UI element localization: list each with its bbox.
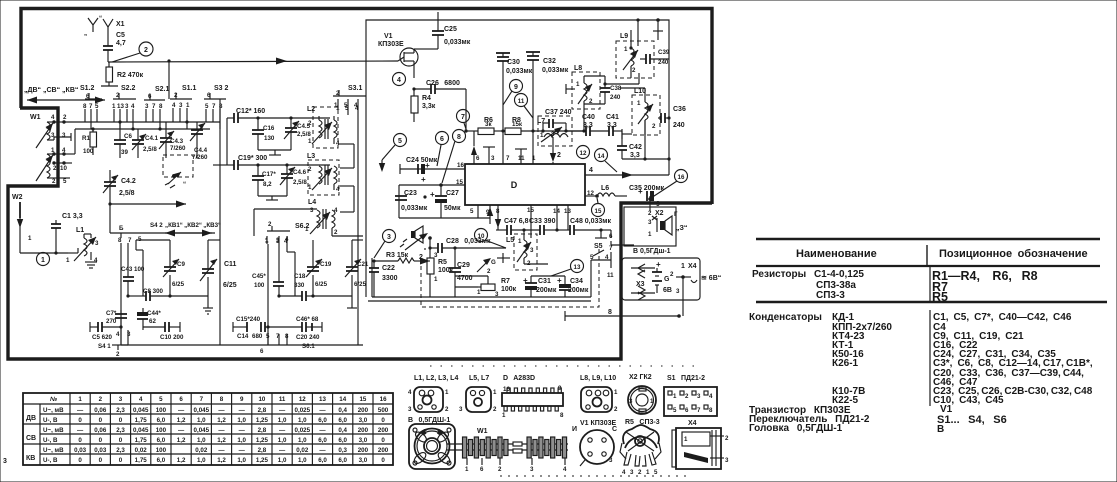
svg-text:4: 4 bbox=[355, 105, 359, 112]
svg-text:2: 2 bbox=[99, 396, 103, 403]
svg-text:4: 4 bbox=[709, 393, 713, 400]
svg-text:1: 1 bbox=[673, 393, 677, 400]
svg-text:1,0: 1,0 bbox=[197, 417, 206, 424]
capacitor C8 300 bbox=[126, 288, 170, 301]
svg-text:—: — bbox=[218, 427, 225, 434]
svg-text:7: 7 bbox=[506, 155, 510, 162]
pinout L8,L9,L10 bbox=[580, 375, 618, 413]
pinout D A283D bbox=[502, 375, 564, 419]
svg-text:4: 4 bbox=[94, 257, 98, 264]
svg-text:5: 5 bbox=[205, 103, 209, 110]
stub above L9 bbox=[653, 18, 663, 40]
IC bottom pins bbox=[470, 205, 571, 238]
svg-text:2: 2 bbox=[445, 406, 449, 413]
svg-text:6,0: 6,0 bbox=[338, 437, 347, 444]
svg-text:2: 2 bbox=[557, 152, 561, 159]
svg-text:C5 620: C5 620 bbox=[92, 334, 113, 341]
capacitor C5 620 bbox=[90, 322, 123, 341]
outer schematic border right/bottom bbox=[8, 108, 712, 359]
svg-text:Конденсаторы: Конденсаторы bbox=[749, 312, 822, 323]
svg-text:1: 1 bbox=[684, 436, 688, 443]
svg-text:≊ 6В“: ≊ 6В“ bbox=[701, 275, 721, 282]
svg-text:Резисторы С1-4-0,125: Резисторы С1-4-0,125 bbox=[752, 269, 864, 280]
capacitor C18 330 bbox=[279, 273, 313, 301]
svg-text:И: И bbox=[572, 426, 577, 433]
svg-text:„КВ1“ „КВ2“ „КВ3“: „КВ1“ „КВ2“ „КВ3“ bbox=[165, 222, 221, 229]
speaker B 0,5GDSh-1 bbox=[633, 211, 687, 255]
capacitor C47 6,8 bbox=[496, 218, 540, 235]
svg-text:S1... S4, S6: S1... S4, S6 bbox=[937, 414, 1007, 426]
svg-text:1,0: 1,0 bbox=[278, 417, 287, 424]
stub left of L10 bbox=[622, 129, 632, 139]
svg-text:„ДВ“ „СВ“ „КВ“: „ДВ“ „СВ“ „КВ“ bbox=[24, 87, 78, 94]
svg-text:1: 1 bbox=[648, 231, 652, 238]
svg-text:16: 16 bbox=[457, 162, 464, 169]
svg-text:3: 3 bbox=[648, 219, 652, 226]
svg-text:1: 1 bbox=[41, 257, 45, 264]
svg-text:U~, мВ: U~, мВ bbox=[43, 427, 64, 434]
svg-text:5: 5 bbox=[95, 103, 99, 110]
svg-text:0: 0 bbox=[99, 437, 103, 444]
svg-text:12: 12 bbox=[580, 150, 587, 157]
svg-text:3: 3 bbox=[697, 393, 701, 400]
svg-text:4,7: 4,7 bbox=[116, 40, 126, 47]
svg-text:3: 3 bbox=[725, 457, 729, 464]
svg-text:270: 270 bbox=[106, 318, 117, 325]
svg-text:10: 10 bbox=[258, 396, 265, 403]
pinout X4 bbox=[672, 420, 729, 469]
svg-text:2,3: 2,3 bbox=[116, 427, 125, 434]
svg-text:—: — bbox=[77, 407, 84, 414]
svg-text:C17*: C17* bbox=[262, 171, 276, 178]
svg-text:16: 16 bbox=[678, 174, 685, 181]
svg-text:1,25: 1,25 bbox=[256, 437, 269, 444]
svg-text:C41: C41 bbox=[606, 114, 619, 121]
paper speckle dots bbox=[430, 366, 700, 476]
svg-text:1: 1 bbox=[614, 389, 618, 396]
table header numbers bbox=[78, 396, 387, 403]
svg-text:2: 2 bbox=[144, 47, 148, 54]
svg-text:2: 2 bbox=[334, 229, 338, 236]
svg-text:C4.3: C4.3 bbox=[170, 138, 184, 145]
capacitor C17* 8,2 bbox=[252, 165, 276, 196]
svg-text:2: 2 bbox=[52, 178, 56, 185]
svg-text:3: 3 bbox=[145, 103, 149, 110]
svg-text:0,02: 0,02 bbox=[135, 447, 148, 454]
pinout W1 ferrite rod bbox=[447, 428, 568, 473]
node 2 circled bbox=[112, 42, 153, 62]
IF transformer L2 bbox=[307, 105, 359, 148]
IF transformer L3 bbox=[307, 153, 340, 195]
svg-text:D: D bbox=[511, 180, 518, 190]
svg-text:6,0: 6,0 bbox=[318, 457, 327, 464]
svg-text:3,0: 3,0 bbox=[359, 417, 368, 424]
svg-text:Х4: Х4 bbox=[688, 420, 697, 427]
svg-text:62: 62 bbox=[149, 318, 156, 325]
svg-text:C43: C43 bbox=[121, 266, 133, 273]
switch S3.1 bbox=[333, 85, 366, 115]
svg-text:1: 1 bbox=[502, 412, 506, 419]
svg-text:2,8: 2,8 bbox=[258, 427, 267, 434]
svg-text:16: 16 bbox=[380, 396, 387, 403]
svg-text:„: „ bbox=[84, 30, 87, 37]
svg-text:11: 11 bbox=[518, 98, 525, 105]
svg-text:СП3-3: СП3-3 bbox=[816, 290, 845, 301]
svg-text:15: 15 bbox=[359, 396, 366, 403]
svg-text:2,5/8: 2,5/8 bbox=[293, 179, 307, 186]
svg-text:0,03: 0,03 bbox=[74, 447, 87, 454]
svg-text:0,033мк: 0,033мк bbox=[444, 39, 471, 46]
svg-text:5: 5 bbox=[63, 178, 67, 185]
svg-text:6: 6 bbox=[609, 233, 613, 240]
inductor L6 bbox=[597, 185, 627, 196]
dashed gang box bbox=[163, 155, 193, 188]
svg-text:14: 14 bbox=[339, 396, 346, 403]
svg-text:1: 1 bbox=[434, 276, 438, 283]
pinout X2 GK2 bbox=[628, 374, 656, 414]
capacitor C40 3,3 bbox=[566, 114, 609, 136]
svg-text:C37 240: C37 240 bbox=[545, 109, 572, 116]
svg-text:200: 200 bbox=[358, 427, 369, 434]
svg-text:КВ: КВ bbox=[26, 455, 35, 462]
svg-text:1,2: 1,2 bbox=[177, 437, 186, 444]
svg-text:10: 10 bbox=[60, 165, 67, 172]
svg-text:3: 3 bbox=[530, 247, 534, 254]
svg-text:Г: Г bbox=[674, 211, 678, 218]
trimmer C4.5 2,5/8 bbox=[258, 118, 311, 155]
svg-text:2: 2 bbox=[268, 221, 272, 228]
capacitor C35 200mk bbox=[629, 185, 665, 211]
svg-text:3: 3 bbox=[459, 406, 463, 413]
svg-text:R3 15к: R3 15к bbox=[386, 252, 409, 259]
capacitor C26 6800 bbox=[414, 80, 466, 131]
svg-text:C5: C5 bbox=[116, 32, 125, 39]
svg-text:0: 0 bbox=[381, 417, 385, 424]
svg-text:D A283D: D A283D bbox=[503, 375, 535, 382]
svg-text:L1: L1 bbox=[76, 227, 84, 234]
svg-text:С1, С5, С7*, С40—С42, С46: С1, С5, С7*, С40—С42, С46 bbox=[933, 312, 1072, 323]
svg-text:6/25: 6/25 bbox=[315, 281, 328, 288]
svg-text:5: 5 bbox=[470, 208, 474, 215]
svg-text:3: 3 bbox=[276, 237, 280, 244]
svg-text:50мк: 50мк bbox=[444, 205, 461, 212]
svg-text:3: 3 bbox=[630, 469, 634, 476]
svg-text:2: 2 bbox=[725, 435, 729, 442]
capacitor C7* 270 bbox=[106, 310, 127, 330]
svg-text:6В: 6В bbox=[663, 287, 672, 294]
svg-text:S3 2: S3 2 bbox=[214, 85, 229, 92]
svg-text:100: 100 bbox=[156, 427, 167, 434]
svg-text:C21: C21 bbox=[357, 261, 369, 268]
electrolytic C31 200mk bbox=[523, 276, 557, 297]
switch S4.1 bbox=[98, 330, 128, 358]
svg-text:0,02: 0,02 bbox=[296, 447, 309, 454]
svg-text:7: 7 bbox=[212, 103, 216, 110]
svg-text:1,75: 1,75 bbox=[135, 437, 148, 444]
svg-text:C42: C42 bbox=[629, 144, 642, 151]
node 7 circled bbox=[457, 110, 470, 133]
svg-text:C12* 160: C12* 160 bbox=[236, 108, 265, 115]
pinout D pins bbox=[504, 388, 561, 411]
wire 8 line bbox=[565, 309, 681, 321]
wires through border to speaker bbox=[611, 244, 634, 246]
svg-text:В 0,5ГДш-1: В 0,5ГДш-1 bbox=[633, 248, 671, 255]
svg-text:1: 1 bbox=[646, 469, 650, 476]
svg-text:0,025: 0,025 bbox=[295, 427, 311, 434]
svg-text:2,5/8: 2,5/8 bbox=[143, 146, 157, 153]
variable cap C21 6/25 bbox=[311, 240, 369, 308]
svg-text:C15*240: C15*240 bbox=[236, 316, 261, 323]
svg-text:1: 1 bbox=[624, 46, 628, 53]
parts list rule under header bbox=[756, 265, 1100, 267]
svg-text:3: 3 bbox=[434, 252, 438, 259]
svg-text:6: 6 bbox=[260, 348, 264, 355]
band labels DV SV KV bbox=[24, 87, 105, 104]
resistor R3 15k bbox=[372, 252, 430, 265]
capacitor C39 240 bbox=[640, 49, 670, 66]
svg-text:V1: V1 bbox=[384, 33, 393, 40]
svg-text:S1.2: S1.2 bbox=[80, 85, 95, 92]
svg-text:К26-1: К26-1 bbox=[832, 358, 859, 369]
svg-text:0,033мк: 0,033мк bbox=[542, 67, 569, 74]
svg-text:—: — bbox=[218, 407, 225, 414]
svg-text:1,0: 1,0 bbox=[298, 437, 307, 444]
node 8 circled bbox=[442, 130, 466, 184]
svg-text:2,5/8: 2,5/8 bbox=[119, 190, 135, 197]
svg-text:1,2: 1,2 bbox=[177, 417, 186, 424]
svg-text:100: 100 bbox=[156, 407, 167, 414]
svg-text:+: + bbox=[425, 161, 430, 170]
svg-text:0,033мк: 0,033мк bbox=[506, 68, 533, 75]
svg-text:0: 0 bbox=[119, 417, 123, 424]
svg-text:—: — bbox=[178, 407, 185, 414]
svg-text:5: 5 bbox=[345, 105, 349, 112]
node 3 circled bbox=[374, 230, 396, 259]
wire bottom bus left bbox=[121, 344, 220, 346]
svg-text:“: “ bbox=[183, 181, 186, 188]
svg-text:1: 1 bbox=[265, 237, 269, 244]
svg-text:1,0: 1,0 bbox=[197, 437, 206, 444]
node 5 circled + AGC arrow bbox=[379, 134, 407, 173]
svg-text:7: 7 bbox=[697, 407, 701, 414]
svg-text:C33 390: C33 390 bbox=[529, 218, 556, 225]
svg-text:—: — bbox=[178, 427, 185, 434]
svg-text:3: 3 bbox=[387, 234, 391, 241]
svg-text:2: 2 bbox=[308, 120, 312, 127]
switch S2.1 bbox=[144, 86, 170, 129]
svg-text:—: — bbox=[279, 447, 286, 454]
IF transformer L10 bbox=[632, 88, 660, 135]
resistor R4 3,3k bbox=[411, 89, 436, 122]
svg-text:500: 500 bbox=[378, 407, 389, 414]
svg-text:11: 11 bbox=[607, 272, 614, 279]
svg-text:0: 0 bbox=[78, 437, 82, 444]
IC left pins C24 row bbox=[400, 157, 465, 187]
capacitor C10 200 bbox=[116, 322, 184, 341]
svg-text:100: 100 bbox=[134, 266, 145, 273]
svg-text:1,2: 1,2 bbox=[177, 457, 186, 464]
inner frame box bbox=[366, 20, 669, 297]
capacitor C41 3,3 bbox=[606, 114, 622, 136]
svg-text:—: — bbox=[239, 447, 246, 454]
svg-text:1,2: 1,2 bbox=[217, 417, 226, 424]
svg-text:C6: C6 bbox=[124, 133, 132, 140]
svg-text:6/25: 6/25 bbox=[223, 282, 237, 289]
svg-text:+: + bbox=[638, 187, 643, 196]
svg-text:680: 680 bbox=[252, 333, 263, 340]
capacitor C29 4700 bbox=[449, 248, 473, 297]
capacitor C16 110 bbox=[252, 118, 275, 150]
svg-text:C24 50мк: C24 50мк bbox=[406, 157, 438, 164]
svg-text:+: + bbox=[430, 190, 435, 199]
svg-text:4: 4 bbox=[563, 466, 567, 473]
svg-text:8: 8 bbox=[118, 237, 122, 244]
svg-text:U-, В: U-, В bbox=[43, 437, 58, 444]
svg-text:C25: C25 bbox=[444, 26, 457, 33]
svg-text:7/260: 7/260 bbox=[192, 154, 208, 161]
svg-text:5: 5 bbox=[673, 407, 677, 414]
svg-text:S1.1: S1.1 bbox=[182, 85, 197, 92]
potentiometer R7 100k bbox=[455, 276, 517, 298]
svg-text:—: — bbox=[319, 447, 326, 454]
svg-text:10: 10 bbox=[478, 233, 485, 240]
switch S1.1 bbox=[169, 61, 197, 129]
resistors rows bbox=[752, 267, 1038, 304]
svg-text:L5: L5 bbox=[506, 237, 514, 244]
svg-text:0,03: 0,03 bbox=[94, 447, 107, 454]
svg-text:C14: C14 bbox=[237, 333, 249, 340]
battery box X3 G bbox=[622, 258, 700, 300]
svg-text:4: 4 bbox=[397, 77, 401, 84]
svg-text:4: 4 bbox=[336, 186, 340, 193]
svg-text:W1: W1 bbox=[477, 428, 488, 435]
svg-text:4: 4 bbox=[336, 140, 340, 147]
measurement table bottom left bbox=[23, 393, 393, 465]
electrolytic C34 200mk bbox=[531, 276, 589, 297]
svg-text:Позиционное обозначение: Позиционное обозначение bbox=[939, 248, 1088, 260]
svg-text:4: 4 bbox=[116, 331, 120, 338]
svg-text:6: 6 bbox=[480, 466, 484, 473]
capacitor C22 3300 bbox=[369, 261, 398, 297]
svg-text:1,0: 1,0 bbox=[197, 457, 206, 464]
svg-text:ДВ: ДВ bbox=[26, 415, 36, 422]
svg-text:+: + bbox=[557, 276, 562, 285]
IC top pins bbox=[464, 129, 553, 164]
svg-text:В 0,5ГДШ-1: В 0,5ГДШ-1 bbox=[408, 417, 450, 424]
svg-text:C47 6,8: C47 6,8 bbox=[504, 218, 529, 225]
svg-text:6/25: 6/25 bbox=[354, 281, 367, 288]
svg-text:2: 2 bbox=[638, 469, 642, 476]
svg-text:100: 100 bbox=[83, 148, 94, 155]
svg-text:—: — bbox=[279, 407, 286, 414]
svg-text:0,4: 0,4 bbox=[338, 427, 347, 434]
svg-text:R5: R5 bbox=[438, 259, 447, 266]
IC D box bbox=[465, 164, 585, 205]
potentiometer R5 100k bbox=[423, 195, 453, 297]
node 6 circled bbox=[436, 132, 449, 167]
table row U~, мВ bbox=[43, 407, 389, 414]
svg-text:11: 11 bbox=[279, 396, 286, 403]
capacitor C45* 100 bbox=[252, 273, 284, 298]
svg-text:—: — bbox=[218, 447, 225, 454]
IF coil L7 with C37 bbox=[537, 109, 572, 162]
variable cap C4.3 7/260 bbox=[159, 122, 186, 158]
svg-text:39: 39 bbox=[121, 149, 128, 156]
wire right chain L2-L3-L4 bbox=[338, 144, 354, 212]
svg-text:C32: C32 bbox=[543, 58, 556, 65]
svg-text:6,0: 6,0 bbox=[338, 457, 347, 464]
transistor switch head rows bbox=[749, 404, 1007, 435]
table row U-, В bbox=[43, 457, 385, 464]
coil L1 bbox=[66, 227, 99, 268]
svg-text:1: 1 bbox=[576, 81, 580, 88]
svg-text:C39: C39 bbox=[658, 49, 670, 56]
svg-text:C4.6: C4.6 bbox=[293, 169, 307, 176]
svg-text:1,0: 1,0 bbox=[237, 437, 246, 444]
capacitor C19* 300 bbox=[227, 155, 330, 170]
S6.2 wire loop bbox=[254, 209, 317, 245]
svg-text:4: 4 bbox=[285, 236, 289, 243]
variable cap C9 6/25 bbox=[136, 240, 185, 298]
svg-text:7: 7 bbox=[461, 114, 465, 121]
variable cap C4.4 7/260 bbox=[190, 122, 208, 161]
capacitor C20 240 bbox=[266, 323, 320, 341]
capacitor C33 390 bbox=[529, 218, 559, 235]
svg-text:2: 2 bbox=[670, 271, 674, 278]
table column lines bbox=[90, 393, 373, 465]
svg-text:1,0: 1,0 bbox=[237, 417, 246, 424]
table row U-, В bbox=[43, 437, 385, 444]
node 13 circled bbox=[551, 260, 584, 277]
svg-text:C11: C11 bbox=[224, 261, 237, 268]
IF transformer L9 bbox=[616, 30, 654, 78]
svg-text:2: 2 bbox=[685, 393, 689, 400]
variable cap C11 6/25 bbox=[170, 240, 237, 314]
svg-text:С: С bbox=[612, 426, 617, 433]
svg-text:100: 100 bbox=[156, 447, 167, 454]
svg-text:3: 3 bbox=[51, 132, 55, 139]
svg-text:S4 2: S4 2 bbox=[150, 222, 163, 229]
capacitor C48 0,033mk bbox=[557, 218, 611, 238]
svg-text:C18: C18 bbox=[294, 273, 306, 280]
svg-text:C22: C22 bbox=[382, 265, 395, 272]
svg-text:C4.2: C4.2 bbox=[121, 178, 136, 185]
svg-text:L10: L10 bbox=[634, 88, 646, 95]
capacitor C5 4,7 bbox=[103, 32, 126, 62]
stub left of L8 bbox=[566, 84, 575, 94]
svg-text:4: 4 bbox=[139, 396, 143, 403]
svg-text:3: 3 bbox=[62, 132, 66, 139]
svg-text:1: 1 bbox=[637, 100, 641, 107]
svg-text:C48 0,033мк: C48 0,033мк bbox=[570, 218, 611, 225]
table row U~, мВ bbox=[43, 447, 389, 454]
svg-text:3: 3 bbox=[119, 396, 123, 403]
svg-text:L3: L3 bbox=[307, 153, 315, 160]
svg-text:2,8: 2,8 bbox=[258, 447, 267, 454]
capacitors rows bbox=[749, 310, 1093, 406]
svg-text:L4: L4 bbox=[308, 199, 316, 206]
svg-text:S4 1: S4 1 bbox=[98, 343, 111, 350]
svg-text:L6: L6 bbox=[601, 185, 609, 192]
resistor R8 15k bbox=[505, 117, 586, 135]
svg-text:U~, мВ: U~, мВ bbox=[43, 447, 64, 454]
svg-text:2: 2 bbox=[53, 165, 57, 172]
svg-text:L8: L8 bbox=[574, 65, 582, 72]
svg-text:3: 3 bbox=[125, 103, 129, 110]
svg-text:2: 2 bbox=[487, 268, 491, 275]
svg-text:200: 200 bbox=[378, 447, 389, 454]
svg-text:6,0: 6,0 bbox=[318, 417, 327, 424]
